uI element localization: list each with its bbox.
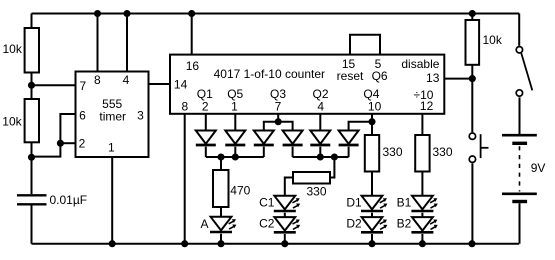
- svg-text:2: 2: [79, 137, 86, 151]
- svg-text:D2: D2: [346, 217, 362, 231]
- svg-text:9V: 9V: [531, 161, 546, 175]
- svg-text:3: 3: [137, 109, 144, 123]
- svg-text:C2: C2: [259, 217, 275, 231]
- svg-text:13: 13: [426, 71, 440, 85]
- svg-text:6: 6: [79, 109, 86, 123]
- svg-text:7: 7: [80, 79, 87, 93]
- svg-text:timer: timer: [99, 109, 126, 123]
- svg-text:10: 10: [368, 99, 382, 113]
- svg-text:330: 330: [306, 185, 326, 199]
- svg-text:470: 470: [230, 184, 250, 198]
- svg-text:disable: disable: [401, 57, 439, 71]
- svg-text:C1: C1: [259, 196, 275, 210]
- svg-text:8: 8: [182, 99, 189, 113]
- svg-text:10k: 10k: [3, 42, 23, 56]
- svg-text:4: 4: [123, 73, 130, 87]
- svg-text:16: 16: [186, 59, 200, 73]
- svg-text:10k: 10k: [2, 115, 22, 129]
- svg-text:8: 8: [94, 73, 101, 87]
- svg-text:0.01µF: 0.01µF: [50, 193, 88, 207]
- svg-text:14: 14: [174, 77, 188, 91]
- svg-text:4017 1-of-10 counter: 4017 1-of-10 counter: [214, 67, 325, 81]
- svg-text:2: 2: [202, 99, 209, 113]
- svg-text:12: 12: [420, 99, 434, 113]
- svg-text:330: 330: [383, 145, 403, 159]
- svg-text:reset: reset: [337, 69, 364, 83]
- svg-text:4: 4: [317, 99, 324, 113]
- svg-text:D1: D1: [346, 196, 362, 210]
- svg-text:1: 1: [231, 99, 238, 113]
- svg-text:1: 1: [108, 140, 115, 154]
- svg-text:7: 7: [275, 99, 282, 113]
- svg-text:B2: B2: [397, 217, 412, 231]
- svg-text:Q6: Q6: [372, 69, 388, 83]
- svg-text:B1: B1: [397, 196, 412, 210]
- svg-text:330: 330: [433, 145, 453, 159]
- svg-text:A: A: [200, 217, 208, 231]
- svg-text:10k: 10k: [483, 33, 503, 47]
